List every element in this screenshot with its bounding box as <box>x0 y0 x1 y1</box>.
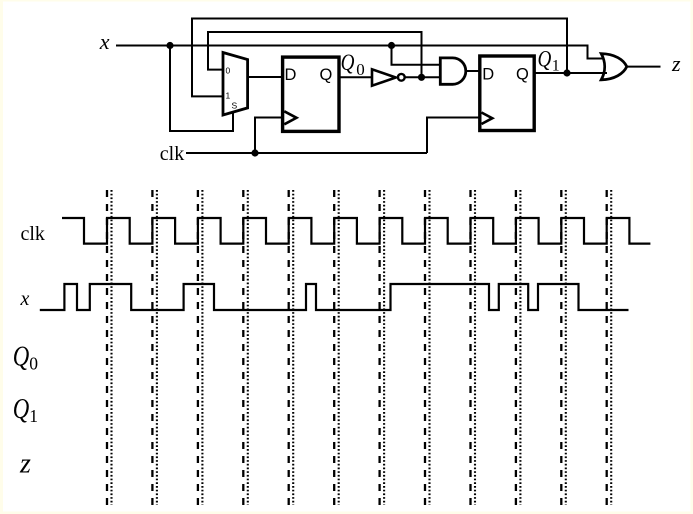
flip-flop U1 box <box>283 57 339 131</box>
node junction dot on x wire for select <box>166 42 173 49</box>
svg-text:Q: Q <box>320 66 333 84</box>
OR gate <box>601 54 627 80</box>
wire clk distribution <box>186 152 427 154</box>
node junction dot on Q1 wire <box>563 69 570 76</box>
waveform clk <box>62 218 650 244</box>
wire Q0' feedback inner loop to mux input 0 <box>208 32 422 77</box>
node junction dot on inverter output wire <box>418 74 425 81</box>
svg-text:D: D <box>482 65 494 83</box>
flip-flop U2 box <box>480 56 534 131</box>
wire AND output to DFF2 D <box>466 70 480 72</box>
wire select s path <box>170 46 233 132</box>
wire Q1 output to OR gate <box>534 72 607 74</box>
wire OR output <box>627 66 661 68</box>
node junction dot on x wire for AND input <box>388 42 395 49</box>
svg-text:clk: clk <box>21 223 45 245</box>
svg-text:S: S <box>232 101 238 111</box>
wire mux output to DFF1 D <box>248 76 282 78</box>
svg-text:z: z <box>19 448 31 479</box>
svg-text:1: 1 <box>29 406 38 426</box>
wire inverter output to AND lower input <box>405 76 441 78</box>
svg-text:clk: clk <box>160 143 184 165</box>
svg-text:D: D <box>285 66 297 84</box>
wire x feedforward step to OR gate <box>588 45 605 59</box>
svg-text:Q: Q <box>13 394 30 425</box>
wire clk to U1 clock <box>255 118 282 154</box>
mux 2-to-1 <box>223 53 248 116</box>
svg-text:Q: Q <box>538 47 552 72</box>
timing grid dashed clock-edge lines <box>107 190 607 505</box>
wire x input horizontal <box>116 45 588 47</box>
wire clk to U2 clock <box>427 118 480 154</box>
clock triangle of U1 <box>284 111 296 124</box>
svg-text:0: 0 <box>226 66 231 76</box>
clock triangle of U2 <box>482 113 493 125</box>
node junction dot on clk wire <box>251 149 258 156</box>
svg-text:z: z <box>671 51 681 76</box>
svg-text:x: x <box>99 29 110 54</box>
timing grid dotted delay lines <box>112 190 612 505</box>
svg-text:Q: Q <box>341 50 355 76</box>
svg-text:0: 0 <box>356 60 365 79</box>
wire Q0 output to inverter <box>339 76 372 78</box>
wire x to AND upper input <box>392 46 442 65</box>
wire Q1 feedback outer loop to mux input 1 <box>192 19 567 97</box>
svg-text:1: 1 <box>552 58 560 75</box>
svg-text:x: x <box>20 288 30 310</box>
AND gate <box>440 58 466 84</box>
inverter (NOT gate) <box>372 69 396 85</box>
svg-text:0: 0 <box>29 354 38 374</box>
svg-text:Q: Q <box>13 341 30 372</box>
inverter bubble <box>398 74 405 81</box>
svg-text:1: 1 <box>226 91 231 101</box>
svg-text:Q: Q <box>516 65 529 83</box>
waveform x <box>40 284 629 310</box>
